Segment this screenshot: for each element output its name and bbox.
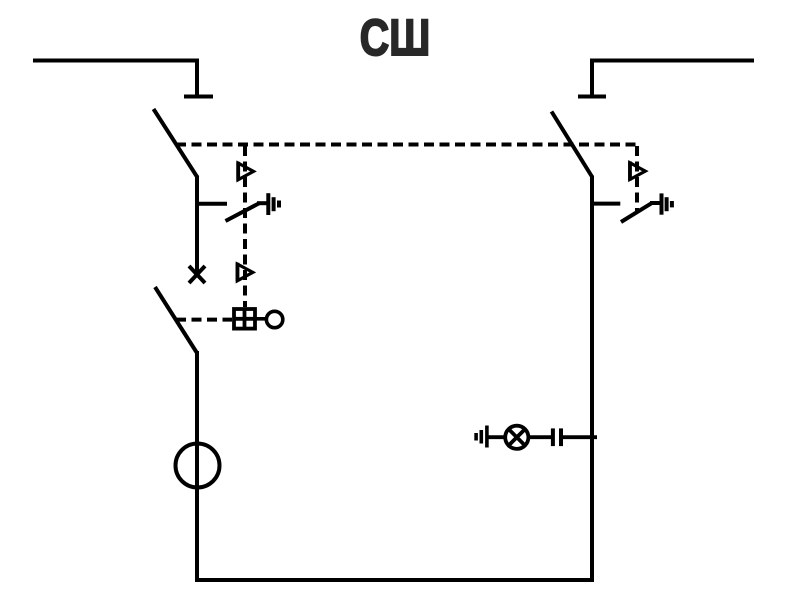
fixed contact bar of disconnector QS3 [578,95,606,99]
linkage drop to earthing switch (right) [635,146,639,212]
svg-text:СШ: СШ [360,9,430,66]
interlock linkage dashed rail [176,143,637,147]
earthing switch QSG1 blade [226,203,260,221]
plug contact bars [553,428,561,446]
wire earth to lamp [488,435,505,439]
bottom wire [197,578,592,582]
earthing switch QSG1 tap [197,202,227,206]
wire contact to right feeder [563,435,597,439]
circuit breaker Q1 (cross) [189,266,205,283]
wire QS2 down through CT to bottom [195,351,199,580]
current transformer TA1 (circle) [176,444,220,488]
busbar section W2 (right) [592,61,754,96]
linkage arrow 2 [237,263,253,282]
label СШ (busbar name) [360,9,430,66]
drive handle (small circle) [266,311,282,327]
wire lamp to contact [528,435,551,439]
wire QS1 to breaker Q1 [195,176,199,276]
fixed contact bar of disconnector QS1 [184,95,213,99]
linkage arrow 1 [238,162,254,181]
earthing switch QSG2 link to earth [650,201,660,205]
earthing switch QSG2 blade [621,203,652,222]
wire QS3 down right side [590,176,594,581]
drive box A1 (motor drive, crossed square) [234,309,255,329]
earth electrode E3 (comb, lamp branch) [476,426,487,448]
disconnector QS3 blade [552,112,593,178]
earth electrode E2 (comb) [662,193,672,214]
disconnector QS1 blade [154,109,198,178]
earthing switch QSG2 tap [592,202,620,206]
earthing switch QSG1 link to earth [257,201,267,205]
lamp HL1 (circle with cross) [505,426,528,449]
earth electrode E1 (comb) [268,193,279,215]
busbar section W1 (left) [33,61,197,96]
dashed link QS2 blade to drive box [176,318,232,322]
linkage drop to drive box (left) [243,146,247,307]
drive box to handle link [255,317,266,321]
disconnector QS2 blade [155,287,197,353]
linkage arrow 3 (right) [630,162,646,181]
